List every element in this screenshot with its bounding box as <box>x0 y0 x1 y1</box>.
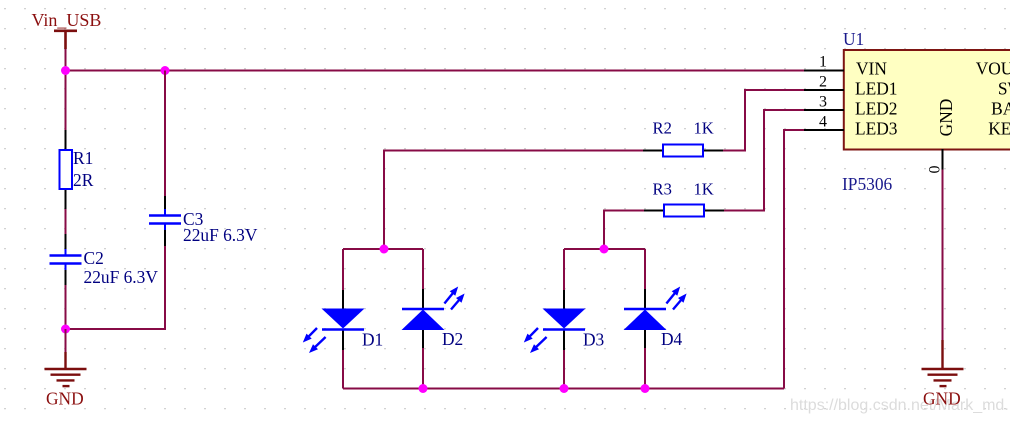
svg-text:1K: 1K <box>694 180 714 199</box>
wire R2 right to pin 2 <box>723 90 806 151</box>
svg-text:GND: GND <box>923 389 961 409</box>
svg-text:1: 1 <box>819 54 827 71</box>
svg-text:R3: R3 <box>653 180 672 199</box>
wire D3 branch top <box>563 249 565 291</box>
pin 3 LED2 <box>804 109 844 111</box>
svg-text:2: 2 <box>819 74 827 91</box>
svg-text:D3: D3 <box>583 330 605 350</box>
svg-text:LED3: LED3 <box>855 119 898 139</box>
resistor R1 <box>60 130 73 209</box>
op-amp U1 body <box>844 50 1010 150</box>
LED D4 <box>624 287 687 349</box>
ground GND left <box>45 329 87 409</box>
wire D2 branch bottom <box>422 348 424 389</box>
svg-text:1K: 1K <box>694 119 714 138</box>
svg-text:22uF 6.3V: 22uF 6.3V <box>183 225 258 245</box>
svg-text:SW: SW <box>998 79 1010 99</box>
svg-text:4: 4 <box>819 114 827 131</box>
wire R3 right to pin 3 <box>724 110 806 211</box>
svg-text:22uF 6.3V: 22uF 6.3V <box>84 267 159 287</box>
svg-text:GND: GND <box>936 99 956 137</box>
svg-text:VOUT: VOUT <box>976 59 1010 79</box>
LED D3 <box>524 290 586 353</box>
svg-text:IP5306: IP5306 <box>842 174 893 194</box>
wire D4 branch bottom <box>644 348 646 389</box>
pin 2 LED1 <box>804 89 844 91</box>
svg-text:BAT: BAT <box>991 99 1010 119</box>
wire node C to C3 bottom <box>66 246 166 329</box>
svg-text:U1: U1 <box>843 29 864 49</box>
node C junction <box>61 325 70 334</box>
node G junction (bottom rail at D3) <box>560 384 569 393</box>
svg-text:3: 3 <box>819 94 827 111</box>
pin 1 VIN <box>804 70 844 72</box>
wire R3 left to LED pair D3 D4 <box>604 211 644 250</box>
svg-text:D1: D1 <box>362 330 383 350</box>
wire node B down to C3 <box>164 71 166 198</box>
svg-text:R1: R1 <box>73 148 93 168</box>
wire D3 D4 top rail <box>564 248 645 250</box>
svg-text:R2: R2 <box>653 119 672 138</box>
LED D2 <box>402 287 465 349</box>
wire D1 branch top <box>342 249 344 291</box>
svg-text:LED2: LED2 <box>855 99 898 119</box>
svg-text:LED1: LED1 <box>855 79 898 99</box>
wire D2 branch top <box>422 249 424 290</box>
pin 4 LED3 <box>804 129 844 131</box>
LED D1 <box>303 290 365 353</box>
node B junction (C3 top) <box>161 66 170 75</box>
wire R1 to C2 <box>65 209 67 235</box>
wire D1 branch bottom <box>342 349 344 389</box>
svg-text:C2: C2 <box>84 248 104 268</box>
svg-text:D4: D4 <box>661 329 683 349</box>
node F junction (top rail D3 D4) <box>600 245 609 254</box>
wire D4 branch top <box>644 249 646 290</box>
wire D1 D2 top rail <box>343 248 423 250</box>
svg-text:0: 0 <box>927 166 944 174</box>
svg-text:GND: GND <box>46 389 84 409</box>
node E junction (bottom rail at D2) <box>419 384 428 393</box>
ground GND right <box>922 340 964 409</box>
wire node A down to R1 <box>65 71 67 132</box>
resistor R3 <box>644 205 724 217</box>
wire C2 to node C <box>65 285 67 329</box>
node D junction (top rail D1 D2) <box>380 245 389 254</box>
node A junction <box>61 66 70 75</box>
wire GND pin down <box>942 170 944 341</box>
node H junction (bottom rail at D4) <box>641 384 650 393</box>
capacitor C3 <box>149 196 181 246</box>
wire R2 left to LED pair D1 D2 <box>384 151 643 250</box>
pin 0 GND bottom <box>942 149 944 170</box>
wire pin 4 down to bottom rail <box>784 130 806 389</box>
svg-text:Vin_USB: Vin_USB <box>32 10 102 30</box>
svg-text:2R: 2R <box>73 170 94 190</box>
wire D3 branch bottom <box>563 349 565 389</box>
wire Vin_USB stem to node A <box>65 49 67 71</box>
svg-text:VIN: VIN <box>856 59 887 79</box>
svg-text:D2: D2 <box>442 329 463 349</box>
capacitor C2 <box>50 234 82 285</box>
svg-text:KEY: KEY <box>988 119 1010 139</box>
resistor R2 <box>643 145 723 157</box>
wire top rail VIN net <box>66 70 807 72</box>
power port Vin_USB <box>32 10 102 49</box>
svg-text:https://blog.csdn.net/Mark_md.: https://blog.csdn.net/Mark_md. <box>790 397 1009 414</box>
wire bottom rail LED return <box>343 388 784 390</box>
